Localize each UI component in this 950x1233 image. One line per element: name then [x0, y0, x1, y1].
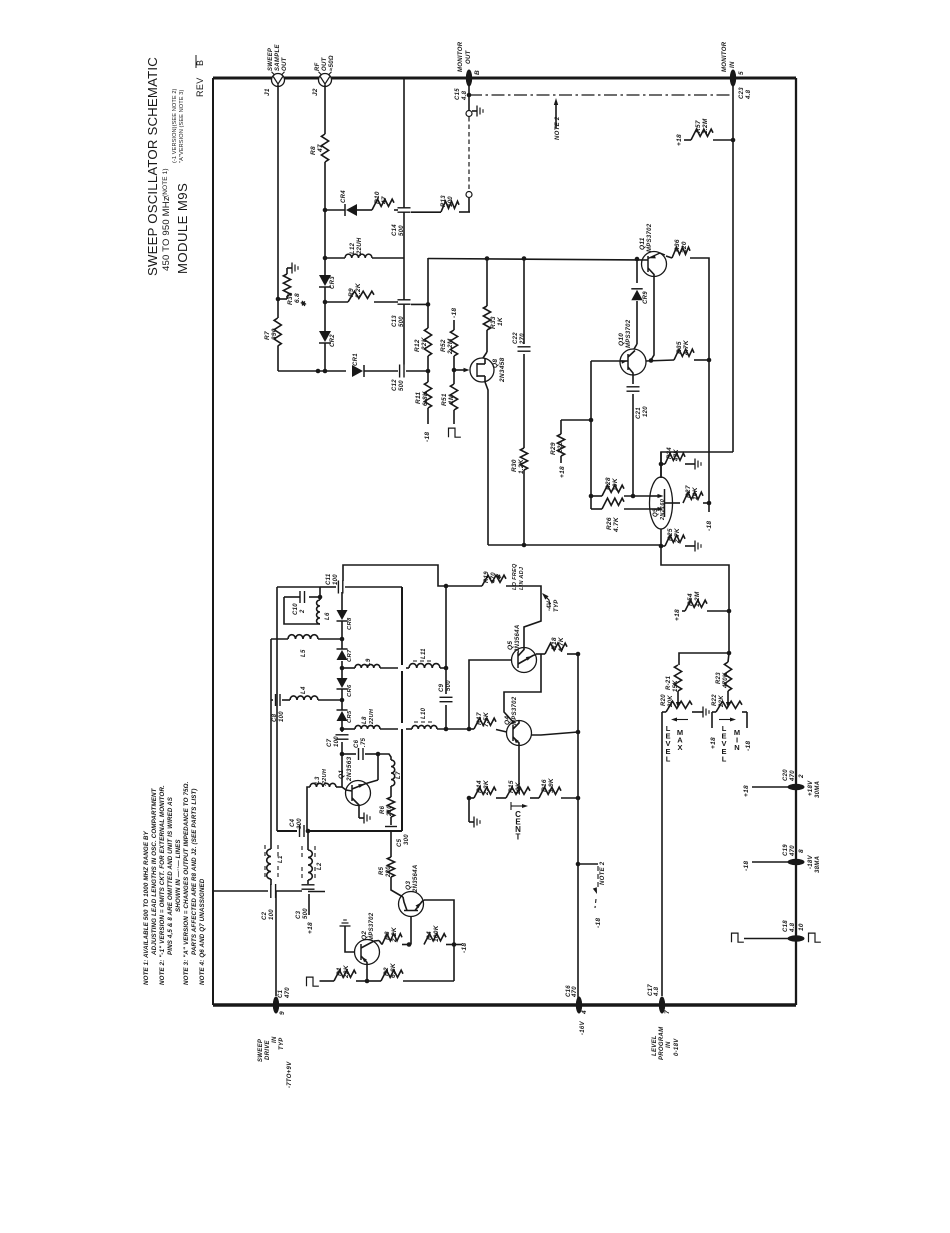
- svg-text:500: 500: [446, 680, 452, 691]
- svg-text:Q5: Q5: [507, 641, 514, 650]
- svg-text:R10: R10: [374, 191, 381, 204]
- wire C2 to C1: [275, 890, 277, 892]
- diode CR5: [341, 700, 343, 710]
- feedthrough C20 470 +18V supply: [788, 784, 805, 790]
- dash-dot line to monitor in (note 2): [469, 94, 733, 96]
- wire R33 column: [486, 258, 488, 306]
- wire J2 column: [324, 85, 326, 135]
- svg-text:J2: J2: [312, 88, 319, 96]
- svg-text:R19: R19: [484, 571, 490, 583]
- row L12 .22uH: [325, 257, 345, 259]
- feedthrough C23 4.8 monitor in: [730, 70, 736, 87]
- resistor R30 1.2K: [520, 448, 527, 470]
- svg-text:1M: 1M: [448, 394, 455, 404]
- svg-text:R20: R20: [661, 694, 667, 706]
- svg-text:100K: 100K: [433, 924, 440, 942]
- svg-text:SWEEP: SWEEP: [258, 1038, 264, 1062]
- svg-text:2N3458: 2N3458: [499, 357, 506, 383]
- transistor Q3 2N3564A: [399, 892, 424, 917]
- svg-text:2: 2: [798, 774, 805, 779]
- node R19 row: [444, 584, 449, 589]
- svg-text:C23: C23: [739, 87, 745, 99]
- resistor R11 6.8K: [427, 371, 429, 382]
- svg-text:MONITOR: MONITOR: [722, 41, 728, 72]
- wire inner column to L1: [270, 639, 272, 849]
- diode CR8: [337, 610, 348, 620]
- svg-text:R33: R33: [490, 316, 497, 329]
- svg-text:R35: R35: [676, 341, 683, 354]
- inductor L5: [271, 638, 288, 640]
- svg-text:IN: IN: [666, 1041, 672, 1048]
- svg-text:2N3564A: 2N3564A: [515, 625, 521, 653]
- resistor R51 1M: [453, 370, 455, 384]
- svg-text:(-1 VERSION)(SEE NOTE 2): (-1 VERSION)(SEE NOTE 2): [172, 88, 178, 163]
- capacitor C22 270: [523, 258, 525, 344]
- row R9 C13: [325, 301, 348, 303]
- wire main row to level network: [488, 544, 661, 546]
- wire sweep drive row: [214, 890, 268, 892]
- svg-text:C15: C15: [455, 88, 461, 100]
- svg-text:2.2K: 2.2K: [483, 779, 490, 796]
- capacitor C6 .75: [342, 753, 356, 755]
- capacitor C12 500: [399, 365, 401, 378]
- svg-text:R15: R15: [508, 780, 515, 793]
- svg-text:R6: R6: [380, 805, 386, 814]
- wire J1 column: [277, 85, 279, 319]
- transistor Q9 2N2160 unijunction: [650, 477, 673, 529]
- svg-text:CR8: CR8: [347, 617, 353, 630]
- resistor R1 22K: [320, 980, 335, 982]
- wire -18 column right: [708, 360, 710, 503]
- svg-text:4.7K: 4.7K: [558, 636, 565, 653]
- svg-text:10K: 10K: [612, 477, 619, 491]
- svg-text:L8: L8: [362, 716, 368, 724]
- svg-text:CR5: CR5: [347, 710, 353, 723]
- svg-text:C20: C20: [783, 769, 789, 781]
- svg-text:CR3: CR3: [330, 276, 336, 289]
- ground at R20: [698, 711, 703, 713]
- transistor Q4 MPS3702: [507, 721, 532, 746]
- inductor L11 (external): [406, 667, 409, 669]
- svg-text:C21: C21: [636, 407, 642, 419]
- svg-text:+18: +18: [307, 922, 314, 934]
- svg-text:5: 5: [738, 71, 745, 75]
- resistor R16 3.9K: [530, 797, 539, 799]
- svg-text:10K: 10K: [515, 781, 522, 795]
- svg-text:4.8: 4.8: [790, 922, 796, 933]
- svg-text:MONITOR: MONITOR: [458, 41, 464, 72]
- svg-text:R57: R57: [695, 120, 702, 133]
- svg-text:L10: L10: [421, 707, 427, 719]
- capacitor C3 500: [307, 880, 309, 884]
- svg-text:Q1: Q1: [338, 770, 345, 779]
- resistor R27 10K: [683, 492, 703, 503]
- label -18 at R22: [746, 712, 748, 728]
- ground at Q1: [359, 817, 364, 819]
- ground at break: [472, 110, 477, 112]
- svg-text:+18: +18: [676, 134, 683, 146]
- svg-text:Q9: Q9: [653, 508, 659, 517]
- wire C11 to R19 row: [343, 565, 447, 586]
- svg-text:TYP: TYP: [279, 1037, 285, 1050]
- svg-text:R23: R23: [716, 672, 722, 684]
- svg-text:Q2: Q2: [361, 931, 368, 940]
- wire Q11 base row: [485, 256, 490, 261]
- svg-text:470: 470: [790, 770, 796, 782]
- connector J2 RF out 50 ohm: [319, 74, 332, 87]
- svg-text:C3: C3: [296, 910, 302, 919]
- diode CR1: [352, 365, 363, 377]
- svg-text:0-18V: 0-18V: [674, 1038, 680, 1056]
- svg-text:4.8: 4.8: [746, 89, 752, 100]
- resistor R26 4.7K: [591, 508, 602, 510]
- transistor Q1 2N3563: [346, 781, 371, 806]
- diode CR3: [319, 275, 331, 286]
- wire monitor out stub: [468, 86, 470, 95]
- svg-text:R4: R4: [426, 931, 433, 940]
- inductor L4: [282, 699, 290, 701]
- svg-text:-18V: -18V: [808, 854, 814, 869]
- feedthrough C19 470 -18V supply: [788, 859, 805, 865]
- wire varactor column: [341, 592, 343, 610]
- svg-text:500: 500: [399, 316, 405, 327]
- svg-text:Q3: Q3: [405, 881, 412, 890]
- svg-text:C1: C1: [278, 989, 284, 998]
- node J2/CR4 row: [323, 208, 328, 213]
- inductor L7: [391, 760, 395, 786]
- svg-text:SHOWN IN —··— LINES: SHOWN IN —··— LINES: [175, 839, 182, 912]
- svg-text:.22UH: .22UH: [322, 768, 328, 786]
- resistor R2 6.8K: [367, 980, 381, 982]
- resistor R29 220: [561, 419, 591, 421]
- wire Q4 emitter wiper: [518, 746, 520, 791]
- svg-text:220: 220: [681, 241, 688, 254]
- svg-text:R22: R22: [712, 694, 718, 706]
- svg-text:1.2K: 1.2K: [518, 458, 525, 474]
- capacitor C11 100: [320, 586, 336, 588]
- wire Q9 base2 top: [660, 452, 662, 477]
- svg-text:-18: -18: [745, 741, 752, 751]
- svg-text:.22UH: .22UH: [357, 237, 363, 256]
- svg-text:SWEEP: SWEEP: [268, 47, 274, 71]
- resistor R35 4.7K: [674, 349, 694, 360]
- svg-text:Q8: Q8: [492, 359, 499, 368]
- feedthrough C16 470: [576, 997, 582, 1014]
- wire Q8 source down: [485, 382, 488, 545]
- svg-text:"A"VERSION (SEE NOTE 3): "A"VERSION (SEE NOTE 3): [179, 90, 185, 163]
- resistor R7 390: [274, 318, 281, 346]
- resistor R23 470K: [724, 662, 731, 691]
- wire Q2 emitter: [366, 965, 368, 982]
- resistor R10 47: [357, 209, 372, 211]
- svg-text:-7TO+9V: -7TO+9V: [287, 1061, 293, 1088]
- resistor R33 1K: [483, 306, 490, 330]
- svg-text:MODULE M9S: MODULE M9S: [175, 183, 190, 274]
- svg-text:L3: L3: [315, 776, 321, 784]
- svg-text:L9: L9: [366, 658, 372, 666]
- transistor Q10 MPS3702: [620, 349, 646, 375]
- svg-text:C18: C18: [783, 920, 789, 932]
- svg-text:R13: R13: [441, 195, 447, 207]
- svg-text:L1: L1: [278, 855, 284, 863]
- svg-text:C19: C19: [783, 844, 789, 856]
- svg-text:C2: C2: [262, 911, 268, 920]
- resistor R25 2.7K: [661, 545, 665, 547]
- svg-text:MPS3702: MPS3702: [369, 912, 375, 941]
- oscillator right wall: [345, 586, 402, 588]
- svg-text:OUT: OUT: [282, 56, 288, 71]
- svg-text:IN: IN: [730, 61, 736, 68]
- svg-text:R36: R36: [674, 239, 681, 252]
- wire L2 column: [307, 831, 309, 850]
- node L4 row: [340, 698, 345, 703]
- svg-text:R3: R3: [384, 931, 391, 940]
- capacitor C10 2: [309, 596, 320, 598]
- row CR4 R10 C14: [325, 209, 345, 211]
- svg-text:R30: R30: [511, 459, 518, 472]
- svg-text:CR1: CR1: [353, 353, 359, 366]
- wire Q9 right lead: [665, 502, 681, 504]
- inductor L1 adjustable: [267, 849, 271, 879]
- svg-text:-18: -18: [743, 861, 750, 871]
- svg-text:30MA: 30MA: [815, 781, 821, 798]
- oscillator compartment top wire: [277, 586, 320, 588]
- wiper R20: [677, 691, 679, 704]
- wire R5 to Q3: [391, 877, 403, 897]
- resistor R36 220: [666, 256, 672, 258]
- svg-text:C5: C5: [397, 838, 403, 847]
- svg-text:4.7K: 4.7K: [613, 516, 620, 533]
- svg-text:TYP: TYP: [554, 599, 560, 612]
- svg-text:210: 210: [387, 805, 393, 817]
- svg-text:R38: R38: [287, 292, 294, 305]
- svg-text:4.7K: 4.7K: [683, 339, 690, 356]
- svg-text:ADJUSTING LEAD LENGTHS IN OSC.: ADJUSTING LEAD LENGTHS IN OSC. COMPARTME…: [151, 787, 158, 956]
- node L5: [340, 637, 345, 642]
- potentiometer R15 10K cent adj: [506, 787, 530, 798]
- capacitor C8 100: [271, 699, 273, 701]
- svg-text:-18: -18: [706, 521, 713, 531]
- svg-text:C4: C4: [290, 818, 296, 827]
- svg-text:22K: 22K: [343, 964, 350, 979]
- svg-text:6.8K: 6.8K: [422, 390, 429, 406]
- node tank: [319, 587, 321, 600]
- wire monitor in column: [732, 86, 734, 452]
- svg-text:120: 120: [643, 406, 649, 417]
- wire Q9 to R54 node: [661, 546, 729, 611]
- svg-text:9: 9: [279, 1011, 286, 1015]
- svg-text:R25: R25: [667, 528, 674, 541]
- diode CR2: [319, 331, 331, 342]
- wire Q10 emitter column: [590, 361, 592, 509]
- diode CR7: [341, 639, 343, 649]
- svg-text:C13: C13: [392, 315, 398, 327]
- node Q8 gate: [452, 368, 457, 373]
- svg-text:R5: R5: [379, 866, 385, 875]
- svg-text:SAMPLE: SAMPLE: [275, 44, 281, 71]
- node L8 row: [340, 727, 345, 732]
- svg-text:500: 500: [399, 380, 405, 391]
- svg-text:R29: R29: [550, 442, 557, 455]
- wire R19 to Q5: [506, 586, 541, 648]
- level max direction arrow: [674, 719, 688, 721]
- pulse input glyph at R51: [449, 428, 461, 437]
- svg-text:NOTE 3: "A" VERSION = CHANGES: NOTE 3: "A" VERSION = CHANGES OUTPUT IMP…: [183, 781, 190, 985]
- wire Q11 collector: [651, 277, 654, 361]
- svg-text:2.7K: 2.7K: [674, 527, 681, 544]
- wire to level pots: [728, 611, 730, 653]
- svg-text:20K: 20K: [668, 695, 674, 708]
- svg-text:R51: R51: [441, 393, 448, 406]
- svg-text:SWEEP OSCILLATOR SCHEMATIC: SWEEP OSCILLATOR SCHEMATIC: [145, 57, 160, 276]
- svg-text:+18: +18: [559, 466, 566, 478]
- wire level program column: [661, 712, 663, 996]
- feedthrough C15 4.8 monitor out: [466, 70, 472, 87]
- node L9 row: [340, 666, 345, 671]
- svg-text:R1: R1: [336, 967, 343, 976]
- wiper R22: [727, 691, 729, 704]
- svg-text:500: 500: [303, 908, 309, 919]
- svg-text:NOTE 2: NOTE 2: [555, 116, 561, 140]
- feedthrough C18 4.8 pulse: [788, 935, 805, 941]
- stub C13 to R12: [411, 303, 428, 305]
- svg-text:470: 470: [790, 845, 796, 857]
- svg-text:L7: L7: [396, 771, 402, 779]
- svg-text:.75: .75: [361, 737, 367, 747]
- svg-text:470: 470: [572, 986, 578, 998]
- transistor Q2 MPS3702: [355, 940, 380, 965]
- svg-text:X: X: [677, 743, 682, 752]
- -4V TYP label with arrow: [542, 593, 549, 600]
- svg-text:-18: -18: [451, 308, 458, 318]
- transistor Q5 2N3564A: [512, 648, 537, 673]
- svg-text:1.2M: 1.2M: [694, 591, 701, 607]
- svg-text:C12: C12: [392, 379, 398, 391]
- svg-text:R14: R14: [476, 780, 483, 793]
- svg-text:100: 100: [279, 711, 285, 722]
- resistor R5 220: [387, 857, 394, 877]
- svg-text:OUT: OUT: [322, 56, 328, 71]
- svg-text:C10: C10: [293, 603, 299, 615]
- svg-text:220: 220: [557, 441, 564, 454]
- diode CR4: [346, 204, 357, 216]
- svg-text:REV: REV: [195, 77, 205, 97]
- svg-text:MPS3702: MPS3702: [626, 319, 632, 348]
- ground at R38: [287, 267, 292, 269]
- svg-text:10: 10: [798, 923, 805, 931]
- svg-text:.22UH: .22UH: [369, 708, 375, 726]
- resistor R4 100K: [424, 934, 446, 945]
- connector break circles: [468, 95, 470, 110]
- svg-text:R11: R11: [415, 392, 422, 404]
- svg-text:390: 390: [271, 328, 278, 340]
- ground at Q2 base: [344, 926, 346, 930]
- svg-text:100: 100: [333, 574, 339, 585]
- wire Q3 emitter to -18 column: [424, 900, 454, 945]
- svg-text:15K: 15K: [673, 680, 679, 692]
- svg-text:LEVEL: LEVEL: [652, 1035, 658, 1056]
- svg-text:R28: R28: [605, 477, 612, 490]
- resistor R38 6.8 with star: [276, 297, 281, 302]
- svg-text:470K: 470K: [723, 672, 729, 689]
- svg-text:-16V: -16V: [580, 1020, 586, 1035]
- svg-text:R7: R7: [264, 331, 271, 340]
- svg-text:J1: J1: [264, 88, 271, 96]
- svg-text:CR7: CR7: [347, 649, 353, 662]
- note 2 arrow at dash line: [555, 101, 557, 128]
- svg-text:2: 2: [300, 609, 306, 614]
- svg-text:-18: -18: [595, 918, 602, 928]
- oscillator compartment left wall: [276, 587, 278, 831]
- svg-text:C8: C8: [272, 713, 278, 722]
- transistor Q8 2N3458 (FET): [483, 352, 487, 358]
- inductor L2 adjustable: [308, 850, 312, 880]
- svg-text:22K: 22K: [421, 336, 428, 351]
- diode CR9: [636, 261, 638, 283]
- potentiometer R22 22K level min: [712, 711, 716, 713]
- connector J1 sweep sample out: [272, 74, 285, 87]
- svg-text:6.8: 6.8: [294, 293, 301, 303]
- svg-text:100: 100: [334, 736, 340, 747]
- potentiometer R20 20K level max: [662, 711, 666, 713]
- resistor R9 2.2K: [348, 291, 374, 302]
- svg-text:R16: R16: [541, 779, 548, 792]
- svg-text:C7: C7: [327, 738, 333, 747]
- resistor R28 10K: [591, 495, 602, 497]
- svg-text:Q10: Q10: [618, 333, 625, 346]
- wire Q9 base1 bottom: [660, 529, 662, 546]
- pulse input at R1: [307, 977, 319, 986]
- svg-text:C11: C11: [326, 573, 332, 585]
- svg-text:3.9K: 3.9K: [548, 777, 555, 793]
- wire R12 column: [427, 258, 429, 328]
- svg-text:Q11: Q11: [639, 237, 646, 250]
- capacitor C2 100: [270, 884, 272, 898]
- transistor Q11 MPS3702: [642, 252, 667, 277]
- svg-text:IN: IN: [272, 1036, 278, 1043]
- svg-text:L11: L11: [421, 648, 427, 659]
- capacitor C4 300: [299, 825, 301, 837]
- svg-text:2N3564A: 2N3564A: [413, 865, 419, 893]
- svg-text:C14: C14: [392, 224, 398, 236]
- inductor L8 .22uH: [342, 728, 355, 730]
- svg-text:100: 100: [448, 196, 454, 207]
- wire -16V column: [577, 654, 579, 999]
- svg-text:C6: C6: [354, 739, 360, 748]
- svg-text:R12: R12: [414, 339, 421, 352]
- ground at R25: [690, 545, 695, 547]
- svg-text:47: 47: [317, 144, 324, 153]
- svg-text:R9: R9: [348, 288, 355, 297]
- resistor R14 2.2K: [467, 796, 472, 801]
- svg-text:500: 500: [399, 225, 405, 236]
- row CR1 C12: [278, 370, 346, 372]
- inductor L9: [342, 667, 355, 669]
- svg-text:R18: R18: [551, 637, 558, 650]
- svg-text:L2: L2: [317, 862, 323, 870]
- svg-text:100: 100: [269, 909, 275, 920]
- svg-text:-18: -18: [461, 943, 468, 953]
- svg-text:300: 300: [404, 834, 410, 845]
- svg-text:CR9: CR9: [643, 291, 649, 304]
- pulse glyph outside at C18: [809, 933, 821, 942]
- svg-text:2N3563: 2N3563: [346, 756, 353, 782]
- wire C5 to R5: [390, 832, 392, 857]
- svg-text:B: B: [474, 70, 481, 75]
- svg-text:NOTE 2: NOTE 2: [600, 861, 606, 885]
- svg-text:R26: R26: [606, 517, 613, 530]
- svg-text:MPS3702: MPS3702: [647, 223, 653, 252]
